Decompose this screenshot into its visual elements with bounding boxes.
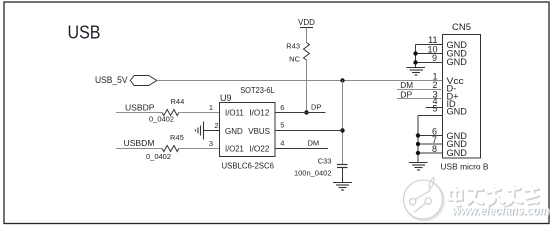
svg-text:I/O11: I/O11 [225, 108, 244, 118]
wire USBDM lead [116, 148, 162, 150]
svg-text:8: 8 [432, 144, 437, 154]
svg-text:VDD: VDD [298, 18, 315, 27]
wire U9 pin 5 to VBUS junction [275, 130, 343, 132]
wire ground to U9 pin 2 [204, 130, 221, 132]
svg-text:GND: GND [447, 57, 468, 67]
svg-text:I/O21: I/O21 [225, 144, 244, 154]
junction dot pin 10 [413, 51, 417, 55]
ground under pins 10/9 [407, 68, 426, 76]
svg-text:0_0402: 0_0402 [146, 152, 171, 161]
junction dot pin 8 [416, 151, 420, 155]
wire USB_5V main horizontal to CN5 pin 1 [157, 80, 443, 82]
wire R45 to U9 pin 3 [179, 148, 220, 150]
svg-text:R43: R43 [286, 42, 300, 51]
wire USBDP lead [116, 112, 162, 114]
wire CN5 pin 5 (GND) with corner down [418, 116, 443, 163]
wire CN5 pin 7 [418, 143, 443, 145]
svg-text:I/O12: I/O12 [249, 108, 270, 118]
ground (rotated) on U9 pin 2 [196, 122, 204, 140]
junction dot VBUS pin 5 [340, 128, 344, 132]
svg-text:4: 4 [280, 139, 284, 148]
svg-text:0_0402: 0_0402 [149, 115, 174, 124]
junction dot R43 to DP wire [304, 110, 308, 114]
svg-text:GND: GND [447, 107, 468, 117]
svg-text:GND: GND [447, 148, 468, 158]
wire vertical bus pins 11-10-9 to ground [415, 45, 417, 68]
svg-text:DM: DM [308, 139, 320, 148]
watermark Chinese characters (stylized strokes) [449, 186, 538, 206]
svg-text:USBDP: USBDP [125, 102, 155, 112]
svg-text:USBLC6-2SC6: USBLC6-2SC6 [222, 161, 275, 170]
svg-text:2: 2 [432, 80, 437, 90]
capacitor C33 [294, 156, 348, 182]
junction dot pin 7 [416, 142, 420, 146]
svg-text:3: 3 [209, 139, 213, 148]
net label DM stub wire to pin 2 [397, 89, 443, 91]
svg-text:USB micro B: USB micro B [441, 163, 489, 172]
wire VBUS vertical branch [342, 81, 344, 165]
junction dot main wire to VBUS branch [340, 78, 344, 82]
svg-text:USB_5V: USB_5V [95, 75, 128, 85]
svg-text:1: 1 [209, 103, 213, 112]
net flag USB_5V hexagon symbol [130, 76, 157, 86]
junction dot pin 9 [413, 60, 417, 64]
watermark logo circle [404, 178, 444, 221]
svg-text:USBDM: USBDM [124, 138, 155, 148]
svg-text:DP: DP [311, 102, 321, 111]
svg-text:www.elecfans.com: www.elecfans.com [452, 204, 549, 218]
svg-text:5: 5 [280, 120, 284, 129]
svg-text:5: 5 [432, 103, 437, 113]
svg-text:6: 6 [280, 103, 284, 112]
wire U9 pin 6 to DP [275, 112, 326, 114]
net label DP stub wire to pin 3 [397, 98, 443, 100]
CN5 internal pin labels [447, 40, 468, 158]
ground below C33 [333, 183, 352, 191]
wire CN5 pin 8 [418, 152, 443, 154]
svg-text:C33: C33 [318, 156, 332, 165]
wire R43 down to DP net (crosses main wire, no junction) [306, 60, 308, 113]
wire CN5 pin 11 [416, 44, 444, 46]
svg-text:R45: R45 [170, 133, 184, 142]
wire CN5 pin 10 [416, 53, 444, 55]
IC U9 USBLC6-2SC6 [220, 86, 276, 170]
watermark url text [452, 204, 550, 219]
svg-text:100n_0402: 100n_0402 [294, 168, 332, 177]
wire CN5 pin 9 [416, 62, 444, 64]
wire CN5 pin 4 stub (ID, n.c.) [426, 107, 444, 109]
power VDD symbol [298, 18, 315, 43]
svg-text:R44: R44 [171, 97, 185, 106]
resistor R44 [149, 97, 184, 123]
resistor R45 [146, 133, 184, 161]
wire R44 to U9 pin 1 [179, 112, 220, 114]
svg-text:GND: GND [225, 126, 243, 136]
wire CN5 pin 6 [418, 135, 443, 137]
svg-text:DM: DM [400, 81, 413, 90]
svg-text:I/O22: I/O22 [249, 144, 270, 154]
svg-text:DP: DP [400, 90, 412, 99]
svg-text:USB: USB [68, 22, 101, 43]
svg-text:CN5: CN5 [452, 22, 471, 33]
svg-text:2: 2 [214, 121, 218, 130]
svg-text:SOT23-6L: SOT23-6L [240, 86, 275, 95]
svg-text:VBUS: VBUS [248, 126, 270, 136]
svg-text:9: 9 [432, 53, 437, 63]
svg-text:NC: NC [289, 54, 300, 63]
junction dot pin 6 [416, 133, 420, 137]
ground under CN5 pins 6-8 [409, 163, 428, 171]
wire U9 pin 4 to DM [275, 148, 328, 150]
connector CN5 body [443, 22, 481, 158]
svg-text:U9: U9 [220, 93, 232, 103]
resistor R43 [286, 42, 309, 64]
